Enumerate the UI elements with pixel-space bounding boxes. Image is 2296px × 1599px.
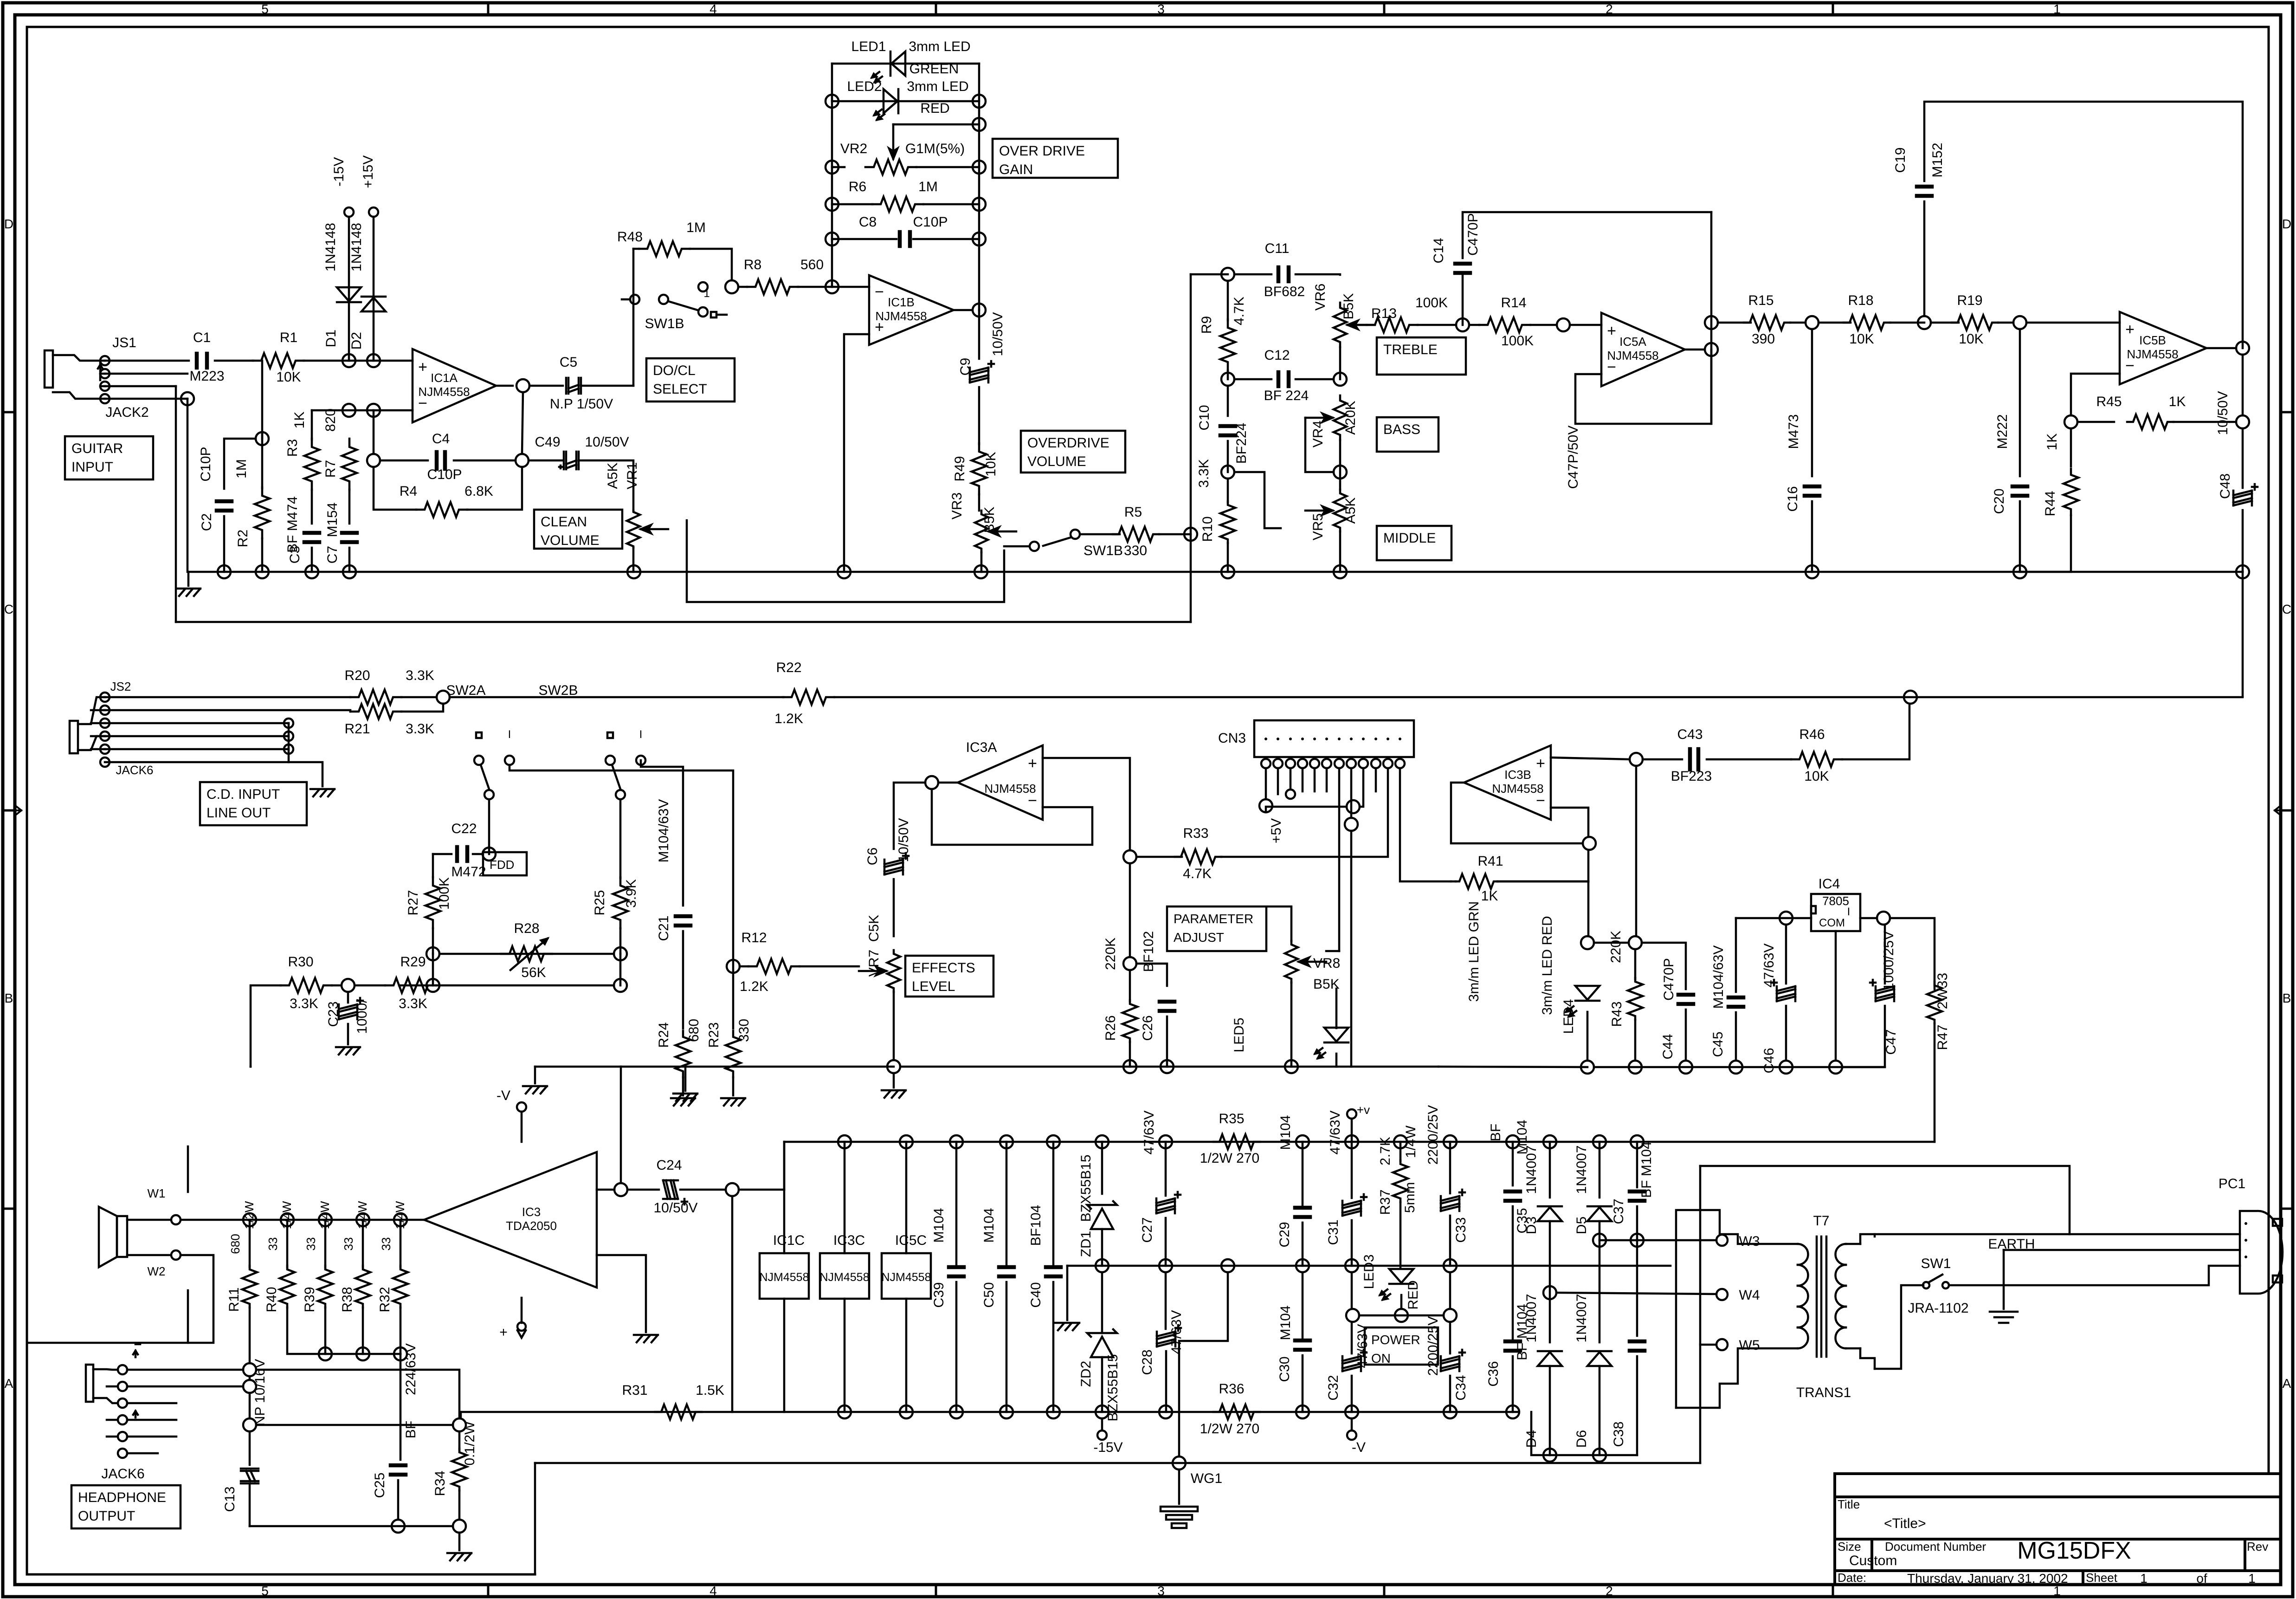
junction R46 drop bbox=[1904, 691, 1917, 704]
label R9 bbox=[1199, 316, 1214, 334]
label RED LED3 bbox=[1406, 1280, 1421, 1309]
junction C12 left bbox=[1221, 373, 1234, 386]
label SW2A bbox=[446, 683, 485, 698]
R9 top bbox=[1227, 281, 1229, 320]
right rail to R22 bus bbox=[2242, 572, 2244, 696]
svg-text:BF: BF bbox=[1488, 1124, 1503, 1141]
svg-text:R14: R14 bbox=[1501, 295, 1526, 311]
SW2A common drop bbox=[488, 800, 490, 854]
R15 wire bbox=[1718, 322, 1751, 324]
svg-text:R20: R20 bbox=[344, 668, 370, 683]
junction R27/R28 bbox=[426, 947, 439, 960]
jack row3 bbox=[127, 1402, 176, 1405]
capacitor C36 bbox=[1504, 1340, 1521, 1352]
label R39 value 33 bbox=[304, 1237, 318, 1251]
gnd stub x1477 bbox=[684, 1067, 687, 1091]
label 5mm bbox=[1402, 1182, 1418, 1213]
svg-text:+: + bbox=[1028, 755, 1037, 772]
junction C45 bottom bbox=[1729, 1061, 1742, 1074]
label -15V bbox=[331, 157, 347, 186]
svg-text:R18: R18 bbox=[1848, 293, 1873, 308]
resistor R21 bbox=[350, 704, 401, 719]
W3 row bbox=[1599, 1239, 1716, 1242]
svg-text:NJM4558: NJM4558 bbox=[1607, 349, 1658, 363]
wire wiper to contact bbox=[1004, 545, 1029, 548]
R19 wire bbox=[1931, 322, 1959, 324]
bridge column D5 top bbox=[1599, 1142, 1601, 1198]
junction middle rail x=2512 bbox=[1159, 1259, 1172, 1272]
capacitor C34 bbox=[1441, 1350, 1465, 1371]
svg-text:1: 1 bbox=[2140, 1571, 2148, 1586]
junction IC3B fb bbox=[1583, 837, 1596, 850]
svg-text:1.2K: 1.2K bbox=[774, 711, 803, 726]
R13 to C14 node bbox=[1418, 324, 1456, 326]
switch SW1B contact 2 bbox=[698, 307, 708, 317]
potentiometer VR3 bbox=[975, 511, 1016, 552]
svg-text:LINE OUT: LINE OUT bbox=[206, 805, 271, 821]
label C33 bbox=[1453, 1217, 1469, 1243]
junction C44 bottom bbox=[1679, 1061, 1692, 1074]
junction top rail x=1820 bbox=[838, 1135, 851, 1148]
label D2 bbox=[349, 332, 364, 350]
svg-text:Sheet: Sheet bbox=[2086, 1571, 2118, 1585]
bridge column D5 mid bbox=[1599, 1221, 1601, 1342]
junction SW2A/C22 bbox=[483, 848, 496, 861]
junction top rail x=3018 bbox=[1394, 1135, 1407, 1148]
R20 to junction bbox=[401, 696, 437, 699]
label R20 bbox=[344, 668, 370, 683]
label C44 value C470P bbox=[1661, 958, 1677, 1001]
jack JS1 pin at y=805 bbox=[100, 369, 110, 378]
R11 col down2 bbox=[249, 1376, 251, 1380]
label R35 value 1/2W 270 bbox=[1200, 1151, 1259, 1166]
wire c2 branch bbox=[224, 439, 256, 489]
junction R1/D1 bbox=[342, 354, 355, 367]
label C49 bbox=[535, 434, 560, 450]
speaker top wire bbox=[127, 1219, 170, 1221]
jack JS1 body bbox=[45, 350, 105, 399]
junction mid rail drop bbox=[1221, 1259, 1234, 1272]
svg-text:M223: M223 bbox=[189, 369, 224, 384]
label R34 bbox=[432, 1470, 448, 1496]
svg-text:C21: C21 bbox=[656, 915, 671, 941]
IC5B rail down bbox=[2242, 355, 2244, 415]
junction bottom rail x=2807 bbox=[1296, 1405, 1309, 1418]
WG1 below bbox=[1178, 1470, 1180, 1504]
trimmer arrow R28 bbox=[510, 939, 548, 970]
svg-text:C28: C28 bbox=[1140, 1349, 1155, 1375]
resistor R43 bbox=[1628, 978, 1643, 1020]
label R24 bbox=[656, 1022, 671, 1048]
resistor R2 bbox=[255, 487, 270, 538]
R31 left leg bbox=[460, 1412, 462, 1418]
label R15 value 390 bbox=[1752, 331, 1775, 347]
svg-text:1/2W 270: 1/2W 270 bbox=[1200, 1421, 1259, 1437]
label R46 value 10K bbox=[1804, 769, 1829, 784]
IC5B out bbox=[2206, 347, 2236, 350]
svg-text:R37: R37 bbox=[1378, 1189, 1393, 1215]
R27 to R28 row bbox=[432, 928, 434, 954]
svg-text:C10P: C10P bbox=[913, 214, 948, 230]
R47 to top rail bbox=[1934, 1023, 1936, 1142]
row2298 left end bbox=[535, 1066, 621, 1068]
label R48 bbox=[617, 229, 643, 245]
svg-text:C46: C46 bbox=[1761, 1048, 1777, 1073]
svg-text:MG15DFX: MG15DFX bbox=[2017, 1537, 2131, 1564]
label 10/50V (C9) bbox=[990, 312, 1006, 356]
svg-text:C11: C11 bbox=[1265, 241, 1290, 256]
junction bus end bbox=[2236, 565, 2249, 578]
R34 bottom bbox=[458, 1490, 461, 1520]
label D1 bbox=[323, 330, 339, 347]
CN3 pin2 stub bbox=[1277, 768, 1279, 794]
R10 col bbox=[1227, 479, 1229, 502]
label C8 value C10P bbox=[913, 214, 948, 230]
svg-text:4.7K: 4.7K bbox=[1232, 297, 1247, 325]
VR7 gnd stub bbox=[893, 1073, 895, 1088]
ground VR7 bbox=[882, 1090, 906, 1098]
svg-text:SW2B: SW2B bbox=[538, 683, 578, 698]
label C23 value 1000/16V bbox=[355, 999, 370, 1034]
IC3 minus out wire bbox=[597, 1189, 614, 1191]
resistor R30 bbox=[281, 978, 332, 993]
switch SW1B contact 1 bbox=[698, 282, 708, 291]
capacitor C1 bbox=[196, 353, 208, 369]
terminal +V IC3 bbox=[517, 1322, 526, 1338]
svg-text:BF682: BF682 bbox=[1264, 284, 1305, 299]
svg-text:SW1B: SW1B bbox=[1084, 543, 1123, 558]
earth wire bbox=[2003, 1250, 2005, 1309]
svg-text:R4: R4 bbox=[400, 484, 417, 499]
junction R45/C48 bbox=[2236, 415, 2249, 428]
junction IC1A output bbox=[516, 379, 529, 392]
junction middle rail x=3125 bbox=[1444, 1259, 1457, 1272]
svg-text:3.3K: 3.3K bbox=[399, 996, 427, 1011]
wire JS1 sleeve row bbox=[105, 398, 187, 400]
IC1B + input wire bbox=[844, 334, 869, 572]
C28 bottom bbox=[1165, 1351, 1167, 1412]
power ground WG1 bbox=[1161, 1507, 1198, 1528]
ground R34 bbox=[447, 1553, 471, 1560]
C37 mid bbox=[1636, 1206, 1638, 1336]
jack JS2 pin 2 bbox=[100, 706, 110, 715]
svg-text:33: 33 bbox=[379, 1237, 393, 1251]
label R36 bbox=[1219, 1381, 1244, 1397]
switch SW2A common bbox=[484, 790, 494, 799]
resistor R29 bbox=[385, 978, 436, 993]
svg-text:IC5B: IC5B bbox=[2139, 333, 2166, 347]
diode D4 bbox=[1538, 1351, 1562, 1366]
svg-text:56K: 56K bbox=[521, 965, 546, 980]
svg-text:C6: C6 bbox=[865, 848, 880, 865]
svg-text:R39: R39 bbox=[302, 1287, 317, 1312]
label R45 bbox=[2096, 394, 2122, 409]
transformer T7 primary outline bbox=[1676, 1210, 1798, 1408]
capacitor C47 bbox=[1870, 980, 1894, 1001]
switch SW2B contact a bbox=[606, 756, 615, 765]
svg-text:A: A bbox=[2283, 1376, 2291, 1391]
C32 below to -V bbox=[1351, 1418, 1353, 1431]
svg-text:4.7K: 4.7K bbox=[1183, 866, 1212, 881]
wire R1 to IC1A + input bbox=[304, 360, 413, 362]
label SW1B bbox=[645, 316, 684, 331]
C11 row 2 bbox=[1234, 273, 1271, 276]
LED LED1 bbox=[890, 52, 905, 76]
svg-text:M104/63V: M104/63V bbox=[656, 799, 671, 863]
wire VR1 wiper route bbox=[687, 520, 1004, 602]
svg-text:JS1: JS1 bbox=[112, 335, 136, 350]
svg-text:2.7K: 2.7K bbox=[1378, 1137, 1393, 1165]
svg-text:2: 2 bbox=[1606, 1584, 1613, 1598]
label D6 bbox=[1574, 1430, 1589, 1448]
R41 to fb column bbox=[1497, 880, 1588, 883]
R30 to C23 bbox=[332, 984, 341, 987]
svg-text:3mm LED: 3mm LED bbox=[907, 79, 968, 94]
junction LED3 row right bbox=[1444, 1309, 1457, 1322]
R39 to tie bbox=[324, 1308, 327, 1354]
svg-text:10/50V: 10/50V bbox=[2215, 391, 2231, 435]
svg-text:7805: 7805 bbox=[1822, 894, 1849, 908]
label C27 bbox=[1140, 1217, 1155, 1243]
svg-text:GAIN: GAIN bbox=[999, 162, 1033, 177]
svg-text:1N4007: 1N4007 bbox=[1524, 1145, 1539, 1194]
svg-text:MIDDLE: MIDDLE bbox=[1383, 531, 1436, 546]
label C46 bbox=[1761, 1048, 1777, 1073]
R18 wire bbox=[1819, 322, 1851, 324]
wire C4 row bbox=[380, 460, 428, 462]
junction R10 top bbox=[1221, 466, 1234, 479]
label LED5 bbox=[1232, 1017, 1247, 1052]
svg-text:A5K: A5K bbox=[1343, 498, 1358, 524]
label 3mm LED (LED1) bbox=[909, 39, 970, 54]
connector CN3 pin dots bbox=[1264, 738, 1401, 740]
row 3070 bbox=[256, 1424, 453, 1426]
label R24 value 680 bbox=[686, 1019, 702, 1042]
svg-text:1: 1 bbox=[2248, 1571, 2256, 1586]
ground near -V bbox=[523, 1086, 547, 1094]
svg-text:R23: R23 bbox=[706, 1022, 722, 1048]
LED col down bbox=[1587, 881, 1590, 936]
junction top rail x=2807 bbox=[1296, 1135, 1309, 1148]
CN3 pin12 drop bbox=[1400, 768, 1451, 881]
wire IC1A output bbox=[496, 385, 513, 387]
label R22 bbox=[776, 660, 801, 675]
label C47 bbox=[1883, 1029, 1899, 1055]
svg-text:1M: 1M bbox=[234, 459, 249, 479]
switch SW1B lower contact bbox=[1030, 542, 1039, 551]
svg-text:C43: C43 bbox=[1677, 727, 1703, 742]
C31 col top bbox=[1351, 1119, 1353, 1198]
svg-text:IC3A: IC3A bbox=[966, 740, 997, 755]
jack JS1 pin at y=777 bbox=[100, 356, 110, 365]
svg-text:C9: C9 bbox=[958, 358, 973, 375]
label C22 value M472 bbox=[451, 864, 486, 880]
R22 bus right bbox=[834, 696, 2243, 699]
svg-text:3.3K: 3.3K bbox=[406, 668, 434, 683]
row 3152 left drop bbox=[534, 1463, 536, 1573]
svg-text:BF223: BF223 bbox=[1671, 769, 1712, 784]
label BZX55B15 upper bbox=[1078, 1154, 1094, 1222]
svg-text:+: + bbox=[1607, 322, 1616, 340]
VR8 top bbox=[1268, 906, 1291, 941]
label R20 value 3.3K bbox=[406, 668, 434, 683]
svg-text:Document Number: Document Number bbox=[1885, 1540, 1986, 1554]
label C30 bbox=[1277, 1356, 1292, 1382]
svg-text:390: 390 bbox=[1752, 331, 1775, 347]
IC5A - loop bbox=[1575, 350, 1711, 424]
junction VR1/bus bbox=[627, 565, 640, 578]
svg-text:C24: C24 bbox=[656, 1158, 682, 1173]
svg-text:R22: R22 bbox=[776, 660, 801, 675]
svg-text:R32: R32 bbox=[377, 1287, 393, 1312]
SW1 to plug bbox=[1949, 1266, 2240, 1285]
label R14 value 100K bbox=[1501, 333, 1534, 349]
svg-text:FDD: FDD bbox=[490, 858, 514, 872]
label NP 10/16V bbox=[252, 1359, 268, 1426]
label LED4 bbox=[1561, 999, 1576, 1034]
resistor R24 bbox=[676, 1031, 690, 1077]
label 1/4W R39 bbox=[318, 1201, 332, 1229]
label R8 bbox=[744, 257, 761, 272]
svg-text:C5K: C5K bbox=[866, 915, 882, 942]
svg-text:LED1: LED1 bbox=[851, 39, 886, 54]
label C11 value BF682 bbox=[1264, 284, 1305, 299]
wire jack row3 drop bbox=[175, 386, 177, 622]
CN3 pin7 to VR8 wiper bbox=[1338, 768, 1341, 951]
junction R19/IC5B bbox=[2013, 316, 2026, 329]
label R15 bbox=[1748, 293, 1774, 308]
label R18 value 10K bbox=[1849, 331, 1874, 347]
label R1 bbox=[280, 330, 297, 345]
resistor R38 bbox=[355, 1266, 370, 1308]
svg-text:R26: R26 bbox=[1103, 1015, 1118, 1041]
R33 to CN3 pin11 bbox=[1221, 769, 1388, 857]
svg-text:C44: C44 bbox=[1660, 1034, 1676, 1059]
C16 to bus bbox=[1811, 501, 1813, 572]
label 10/50V (C6) bbox=[896, 818, 911, 862]
junction 220K bbox=[1123, 957, 1136, 970]
label C24 bbox=[656, 1158, 682, 1173]
svg-text:POWER: POWER bbox=[1371, 1333, 1420, 1347]
resistor R33 bbox=[1175, 849, 1221, 864]
label box PARAMETER ADJUST bbox=[1167, 906, 1266, 951]
WG1 drop bbox=[1179, 1272, 1228, 1457]
ground R24 bbox=[671, 1098, 695, 1106]
label R31 value 1.5K bbox=[696, 1383, 724, 1398]
CN3 pin9 stub bbox=[1360, 768, 1363, 807]
border arrow left bbox=[9, 807, 21, 814]
svg-text:ON: ON bbox=[1371, 1351, 1391, 1366]
svg-text:C12: C12 bbox=[1264, 348, 1290, 363]
resistor R32 bbox=[393, 1266, 408, 1308]
row2298 seg3 bbox=[685, 1066, 894, 1068]
junction R13/C14 bbox=[1456, 318, 1469, 331]
label D5 bbox=[1574, 1217, 1589, 1234]
svg-text:R6: R6 bbox=[849, 179, 866, 194]
gnd stub near -V bbox=[534, 1067, 536, 1083]
junction R10/bus bbox=[1221, 565, 1234, 578]
wire C4 right bbox=[454, 460, 516, 462]
label M104/63V bbox=[656, 799, 671, 863]
diode D1 bbox=[337, 287, 361, 302]
svg-text:33: 33 bbox=[266, 1237, 280, 1251]
CN3 pin4 stub bbox=[1302, 768, 1304, 791]
svg-text:C25: C25 bbox=[372, 1472, 387, 1498]
column C50 bottom bbox=[1006, 1282, 1008, 1412]
IC3A + wire bbox=[1043, 758, 1130, 850]
label C40 value BF104 bbox=[1028, 1205, 1044, 1246]
VR7 to bottom bbox=[893, 992, 895, 1060]
JS2 tie vertical bbox=[288, 723, 290, 762]
IC3A out to C6 bbox=[894, 783, 925, 849]
resistor R11 bbox=[242, 1266, 257, 1308]
label box BASS bbox=[1377, 417, 1438, 452]
capacitor C29 bbox=[1294, 1207, 1311, 1218]
transformer T7 secondary outline bbox=[1860, 1234, 1875, 1369]
label 1/4W R32 bbox=[393, 1201, 407, 1229]
ground bus input section bbox=[188, 571, 1340, 573]
svg-text:IC1C: IC1C bbox=[773, 1233, 805, 1248]
svg-text:of: of bbox=[2196, 1571, 2207, 1586]
svg-text:NJM4558: NJM4558 bbox=[882, 1271, 931, 1284]
SW2B contact-b drop C21 bbox=[641, 760, 683, 906]
svg-text:5: 5 bbox=[261, 1584, 269, 1598]
label 1/4W R38 bbox=[355, 1201, 369, 1229]
IC4 out to R47 bbox=[1890, 918, 1935, 989]
label I marker SW2B bbox=[639, 728, 643, 741]
wire R39 top lead bbox=[324, 1220, 327, 1267]
secondary bottom to SW1 bbox=[1875, 1285, 1923, 1369]
transformer T7 secondary coil bbox=[1836, 1244, 1861, 1348]
label D1 1N4148 bbox=[323, 223, 338, 272]
junction VR4 bottom bbox=[1334, 466, 1347, 479]
secondary top wire bbox=[1875, 1233, 2240, 1236]
resistor R25 bbox=[613, 877, 628, 928]
junction C46 bottom bbox=[1780, 1061, 1793, 1074]
transformer T7 primary coil bbox=[1798, 1244, 1808, 1348]
label R1 value 10K bbox=[276, 369, 301, 385]
svg-text:M222: M222 bbox=[1995, 414, 2010, 449]
pin12 row to R41 bbox=[1451, 880, 1456, 883]
wire bus ground stub bbox=[187, 572, 190, 586]
label C10 bbox=[1197, 405, 1212, 430]
label VR7 bbox=[866, 950, 882, 977]
jack JACK6 pin 3 bbox=[118, 1398, 127, 1408]
R44 top bbox=[2070, 428, 2072, 466]
label 820 bbox=[323, 408, 338, 432]
label 2200/25V C33 bbox=[1425, 1105, 1441, 1165]
label BF224 bbox=[1234, 423, 1249, 464]
svg-text:R45: R45 bbox=[2096, 394, 2122, 409]
label C39 value M104 bbox=[931, 1208, 947, 1243]
svg-text:NJM4558: NJM4558 bbox=[418, 385, 470, 399]
label ZD1 bbox=[1078, 1231, 1094, 1257]
svg-text:3m/m LED RED: 3m/m LED RED bbox=[1540, 916, 1555, 1015]
svg-text:W5: W5 bbox=[1739, 1338, 1760, 1353]
label C50 value M104 bbox=[981, 1208, 997, 1243]
C10 col top bbox=[1227, 386, 1229, 416]
svg-text:D: D bbox=[2282, 217, 2291, 231]
label C22 bbox=[451, 821, 477, 836]
C8 row right bbox=[913, 238, 979, 240]
svg-text:10K: 10K bbox=[1959, 331, 1983, 347]
svg-text:C49: C49 bbox=[535, 434, 560, 450]
svg-text:47/63V: 47/63V bbox=[1142, 1110, 1157, 1154]
ground input bus bbox=[176, 589, 200, 596]
svg-text:OVER DRIVE: OVER DRIVE bbox=[999, 143, 1085, 159]
svg-text:IC1A: IC1A bbox=[431, 371, 458, 385]
svg-text:1/4W: 1/4W bbox=[1403, 1125, 1419, 1158]
